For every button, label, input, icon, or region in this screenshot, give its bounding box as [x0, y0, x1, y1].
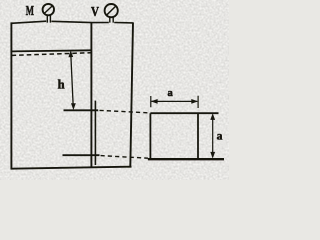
- gauge V circle: [105, 4, 118, 17]
- dashed projection line bottom: [101, 156, 149, 159]
- horizontal dim arrow right: [191, 99, 198, 104]
- liquid surface dashed line: [12, 53, 92, 56]
- tank left wall: [10, 22, 12, 169]
- divider second line: [94, 101, 96, 165]
- ground line under square: [148, 158, 224, 160]
- svg-text:a: a: [217, 130, 223, 142]
- svg-text:V: V: [91, 5, 99, 20]
- tank bottom: [11, 167, 132, 169]
- liquid surface solid line: [12, 50, 92, 51]
- vertical dim arrow up: [210, 113, 215, 120]
- svg-text:h: h: [58, 78, 65, 92]
- orifice top line: [64, 109, 99, 111]
- vertical dimension line a: [212, 116, 214, 156]
- gauge M circle: [43, 4, 54, 15]
- paper background: [0, 0, 229, 180]
- h dimension line: [71, 55, 73, 106]
- tank right wall: [130, 22, 133, 167]
- horizontal dim arrow left: [151, 99, 158, 104]
- tank top line (with gaps for gauge stems): [11, 21, 133, 23]
- gauge M needle diagonal: [44, 6, 53, 14]
- divider wall: [90, 23, 92, 168]
- dashed projection line top: [100, 110, 151, 113]
- gauge V stem: [110, 17, 113, 22]
- horizontal dimension ticks: [151, 96, 198, 108]
- vertical dim arrow down: [210, 152, 215, 159]
- gauge M stem: [47, 15, 50, 23]
- gauge V needle diagonal: [106, 6, 116, 15]
- h arrow head bottom: [71, 103, 76, 110]
- svg-text:M: M: [26, 4, 34, 19]
- svg-text:a: a: [168, 88, 174, 99]
- square a x a : left, right, top(with right extension): [150, 113, 218, 159]
- orifice bottom line: [63, 154, 100, 156]
- horizontal dimension line a: [152, 100, 198, 102]
- h arrow head top: [68, 50, 73, 57]
